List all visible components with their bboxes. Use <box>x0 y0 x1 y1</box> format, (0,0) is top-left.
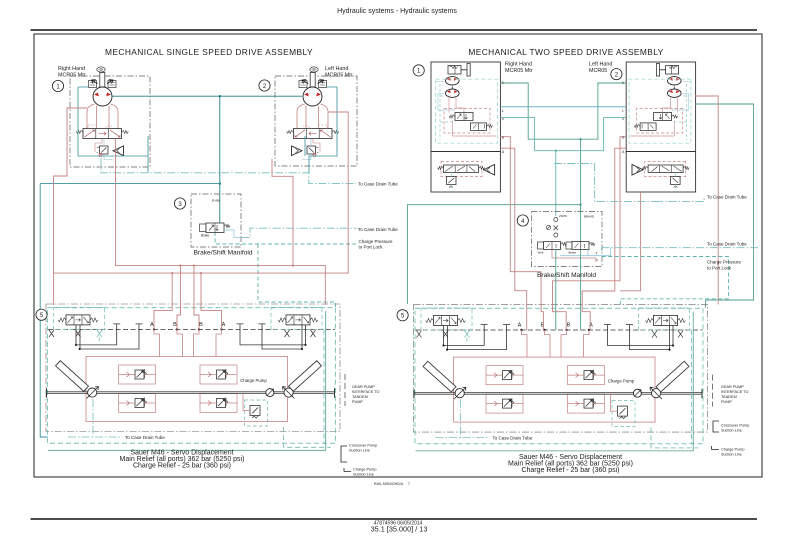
svg-text:Right Hand: Right Hand <box>505 62 532 68</box>
two-speed motor right hand <box>431 62 500 192</box>
svg-text:Shift: Shift <box>538 251 544 255</box>
svg-text:MCR05 Mtr: MCR05 Mtr <box>325 72 353 78</box>
svg-text:MCR05 Mtr: MCR05 Mtr <box>58 72 86 78</box>
red tap port B <box>177 266 181 330</box>
motor unit 2 left hand (mirrored) <box>287 67 339 160</box>
svg-text:Brake: Brake <box>201 234 210 238</box>
svg-text:Brake/Shift Manifold: Brake/Shift Manifold <box>193 250 252 257</box>
item 2 callout <box>259 80 270 91</box>
charge pressure dashed right <box>602 257 729 308</box>
port letters motor R2 <box>622 81 625 154</box>
svg-text:MCR05: MCR05 <box>589 68 607 74</box>
green drop to brake valve <box>580 139 582 243</box>
red motor R2 A <box>582 148 626 330</box>
motor unit 1 right hand <box>76 67 128 160</box>
svg-text:Crossover Pump: Crossover Pump <box>721 424 749 428</box>
brake solenoid valve 4 <box>566 242 595 255</box>
svg-text:Left Hand: Left Hand <box>325 66 348 72</box>
teal X bus <box>500 118 625 151</box>
svg-text:Suction Line: Suction Line <box>721 453 742 457</box>
case drain dash-dot lower <box>242 228 357 237</box>
svg-text:RAIL MSN/GHD/A 7: RAIL MSN/GHD/A 7 <box>374 482 410 486</box>
red servo feed <box>53 273 55 305</box>
svg-text:Charge Pump: Charge Pump <box>353 468 376 472</box>
orifice symbols <box>554 218 558 222</box>
item 5 callout left <box>36 309 47 320</box>
svg-text:BRAKE: BRAKE <box>584 215 594 219</box>
svg-text:PUMP: PUMP <box>721 400 732 404</box>
svg-text:Charge Pump: Charge Pump <box>721 448 744 452</box>
svg-text:To Case Drain Tube: To Case Drain Tube <box>358 227 398 232</box>
pump assembly right (item 5) <box>414 305 713 451</box>
svg-text:L: L <box>502 109 504 113</box>
brake solenoid valve <box>200 223 231 238</box>
wire motor1 to motor2 teal <box>112 95 302 97</box>
item 3 callout <box>174 198 185 209</box>
brake/shift manifold box <box>191 194 241 247</box>
shift solenoid valve <box>538 242 567 255</box>
motor 1 case drain teal <box>78 87 148 173</box>
page frame <box>34 34 762 477</box>
red tap port B2 <box>194 266 199 330</box>
bracket left <box>341 446 347 462</box>
red loop B motors <box>116 139 294 266</box>
wire left teal feed <box>40 184 220 437</box>
svg-text:To Case Drain Tube: To Case Drain Tube <box>358 182 398 187</box>
green bus N lines <box>500 83 625 139</box>
motor 2 case drain teal <box>305 87 337 173</box>
red loop A motors <box>54 108 349 273</box>
manifold4 tank line cyan <box>560 248 611 256</box>
svg-text:Charge Relief - 25 bar (360 ps: Charge Relief - 25 bar (360 psi) <box>521 467 619 474</box>
svg-text:INTERFACE TO: INTERFACE TO <box>352 390 380 394</box>
svg-text:to Port Lock: to Port Lock <box>707 266 732 271</box>
manifold tank line <box>224 230 242 238</box>
svg-text:2SPD: 2SPD <box>559 214 568 218</box>
svg-text:Right Hand: Right Hand <box>58 66 85 72</box>
svg-text:Suction Line: Suction Line <box>721 429 742 433</box>
item 4 callout <box>517 215 528 226</box>
red tap port A2 <box>201 273 222 329</box>
svg-text:MCR05 Mtr: MCR05 Mtr <box>505 68 533 74</box>
case drain dash-dot right lower <box>602 248 758 251</box>
brake/shift manifold 4 box <box>532 211 603 266</box>
svg-text:Left Hand: Left Hand <box>589 62 612 68</box>
svg-text:To Case Drain Tube: To Case Drain Tube <box>707 242 747 247</box>
item 1 callout right <box>413 65 424 76</box>
svg-text:Brake/Shift Manifold: Brake/Shift Manifold <box>537 272 596 279</box>
svg-text:PUMP: PUMP <box>352 400 363 404</box>
port letters motor R1 <box>502 81 505 154</box>
svg-text:(P AB): (P AB) <box>212 199 221 203</box>
case drain dash-dot right upper <box>554 164 704 202</box>
item 5 callout right <box>397 310 408 321</box>
red brake feed motor R2 <box>620 192 641 291</box>
header rule <box>31 29 758 31</box>
svg-text:TANDEM: TANDEM <box>721 395 737 399</box>
red tap junction dots <box>171 265 202 275</box>
svg-text:to Port Lock: to Port Lock <box>359 245 384 250</box>
svg-text:Brake: Brake <box>569 251 577 255</box>
svg-text:MECHANICAL TWO SPEED DRIVE ASS: MECHANICAL TWO SPEED DRIVE ASSEMBLY <box>468 47 663 57</box>
svg-text:GEAR PUMP: GEAR PUMP <box>352 385 375 389</box>
svg-text:Suction Line: Suction Line <box>349 449 370 453</box>
red motor R1 B <box>500 137 543 331</box>
red tap port A <box>154 273 172 329</box>
footer rule <box>31 518 758 520</box>
manifold4 P line red <box>552 250 596 263</box>
red charge feed drop <box>293 266 325 305</box>
svg-text:TANDEM: TANDEM <box>352 395 368 399</box>
item 1 callout <box>52 80 63 91</box>
item 2 callout right <box>611 69 622 80</box>
green far left drop <box>407 205 580 304</box>
red motor R2 B <box>553 137 626 331</box>
motor 2 assembly dash-dot box <box>275 76 357 166</box>
svg-text:Charge Pressure: Charge Pressure <box>707 260 742 265</box>
svg-text:Charge Relief - 25 bar (360 ps: Charge Relief - 25 bar (360 psi) <box>133 463 231 470</box>
green far right drop <box>695 104 754 308</box>
svg-text:GEAR PUMP: GEAR PUMP <box>721 385 744 389</box>
green below manifold <box>556 250 581 330</box>
svg-text:Hydraulic systems - Hydraulic: Hydraulic systems - Hydraulic systems <box>337 8 457 15</box>
two-speed motor left hand mirrored <box>626 62 695 192</box>
svg-text:Crossover Pump: Crossover Pump <box>349 444 377 448</box>
svg-text:To Case Drain Tube: To Case Drain Tube <box>707 195 747 200</box>
red far right drop <box>695 96 718 305</box>
wire center teal drop <box>219 96 221 223</box>
teal L crossover line <box>500 106 625 108</box>
svg-text:Charge Pressure: Charge Pressure <box>359 239 394 244</box>
pump assembly left (item 5) <box>46 304 345 450</box>
svg-text:Suction Line: Suction Line <box>353 473 374 477</box>
red motor R1 A <box>500 148 526 330</box>
bracket right <box>713 421 719 432</box>
svg-text:MECHANICAL SINGLE SPEED DRIVE: MECHANICAL SINGLE SPEED DRIVE ASSEMBLY <box>105 47 313 57</box>
case drain dash-dot upper <box>101 158 356 184</box>
charge pressure dashed <box>215 232 356 308</box>
teal drop to shift valve <box>555 151 557 216</box>
motor 1 assembly dash-dot box <box>70 76 150 167</box>
svg-text:35.1 [35.000] / 13: 35.1 [35.000] / 13 <box>371 525 428 534</box>
svg-text:L: L <box>622 109 624 113</box>
svg-text:INTERFACE TO: INTERFACE TO <box>721 390 749 394</box>
